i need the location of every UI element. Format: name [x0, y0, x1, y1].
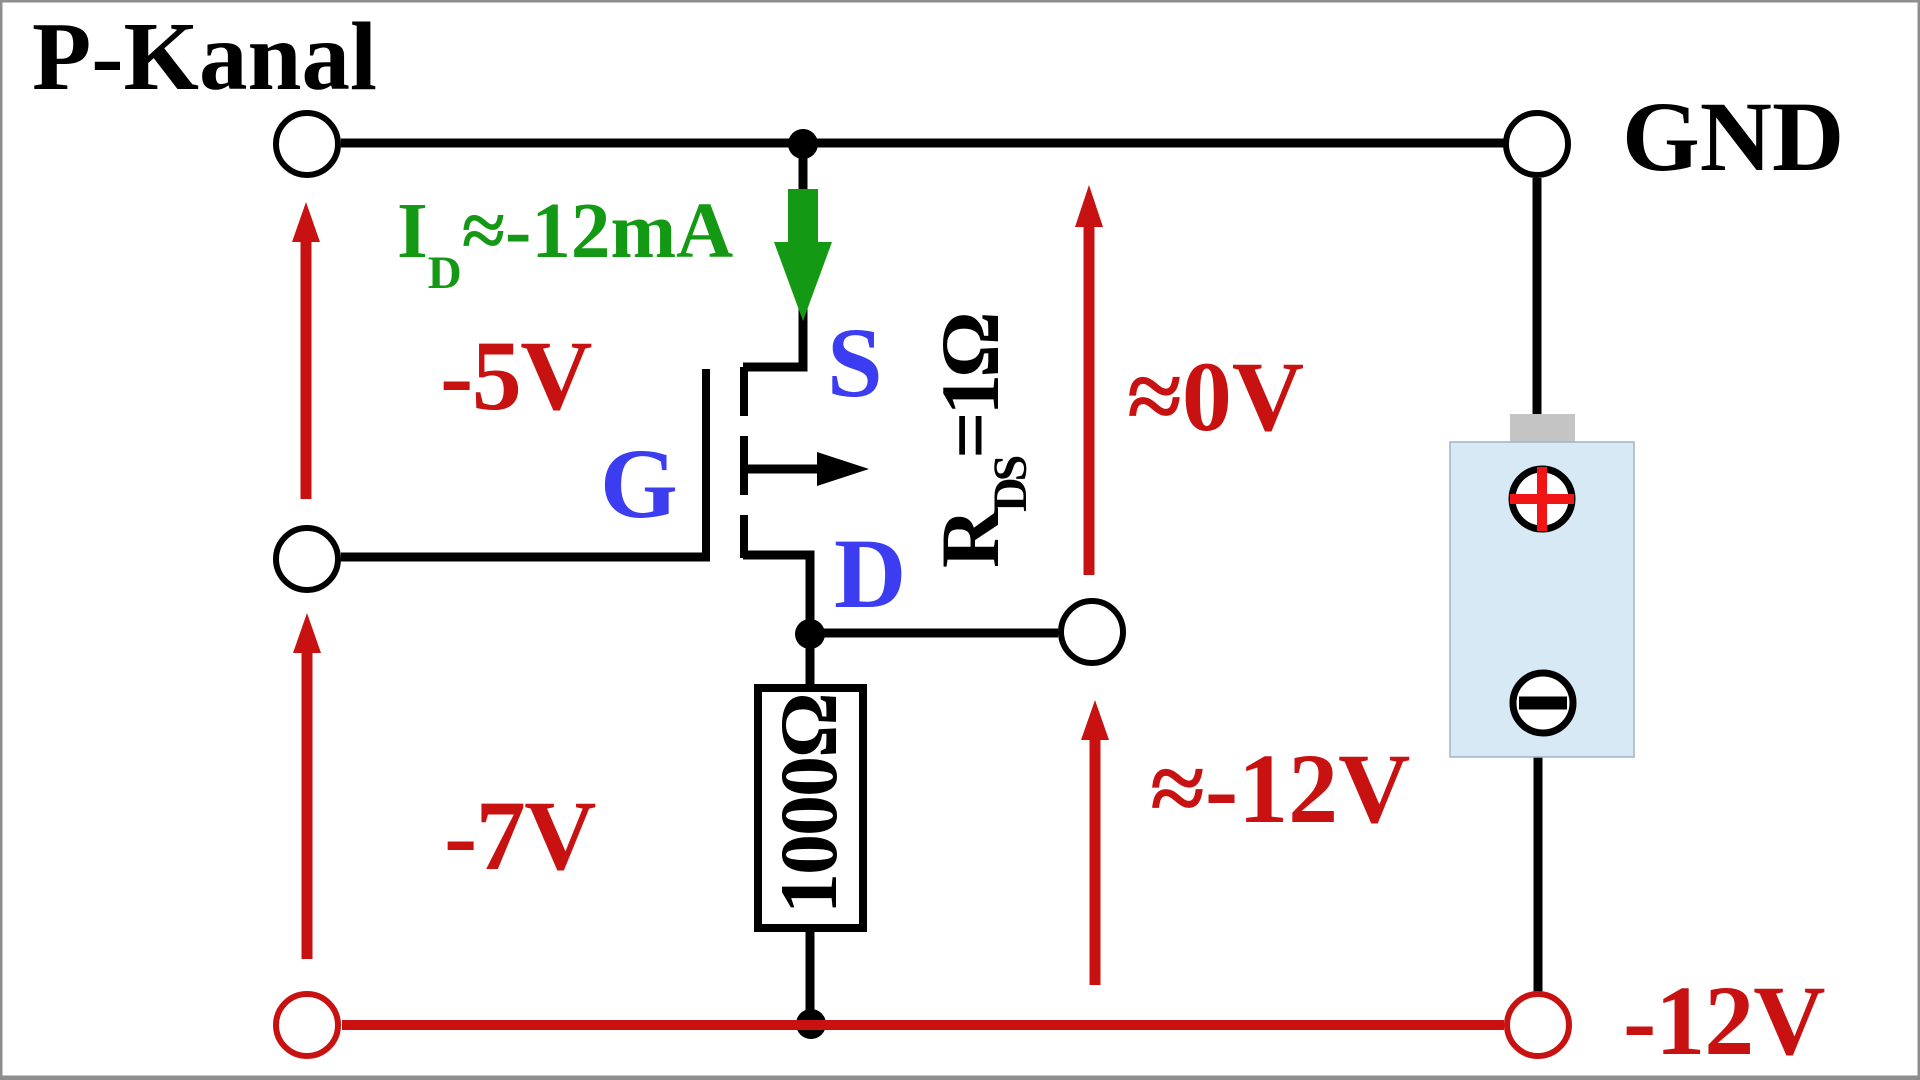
- svg-text:G: G: [600, 428, 678, 539]
- svg-text:≈0V: ≈0V: [1127, 341, 1304, 452]
- svg-text:-7V: -7V: [444, 780, 596, 891]
- svg-text:GND: GND: [1622, 81, 1844, 192]
- svg-text:≈-12V: ≈-12V: [1150, 733, 1410, 844]
- svg-text:-5V: -5V: [440, 320, 592, 431]
- svg-text:D: D: [834, 518, 906, 629]
- svg-text:P-Kanal: P-Kanal: [32, 3, 377, 110]
- svg-text:-12V: -12V: [1623, 965, 1825, 1076]
- svg-text:S: S: [827, 307, 883, 418]
- svg-text:1000Ω: 1000Ω: [763, 694, 854, 914]
